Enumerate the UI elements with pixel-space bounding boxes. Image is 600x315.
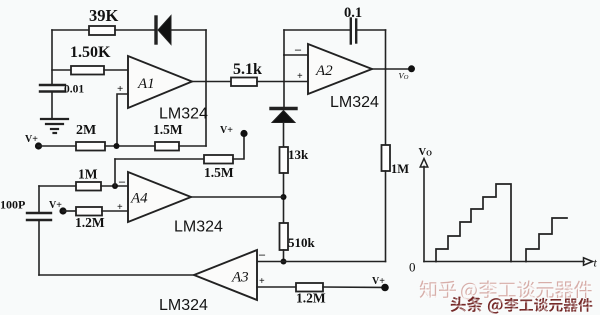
- wire A2 output: [372, 68, 411, 70]
- svg-text:1.2M: 1.2M: [296, 291, 326, 306]
- wire 1.5M to V+ corner: [233, 136, 244, 159]
- svg-text:LM324: LM324: [174, 219, 223, 236]
- wire A2 feedback top right: [356, 29, 385, 31]
- svg-text:–: –: [258, 247, 266, 261]
- wire A2 minus node down to diode: [283, 55, 285, 107]
- svg-text:–: –: [294, 42, 302, 56]
- wire left vertical top loop: [51, 30, 53, 85]
- watermark toutiao dark: [451, 296, 594, 315]
- wire 1M top vertical: [385, 69, 387, 145]
- wire 1M bottom vertical: [385, 171, 387, 262]
- svg-text:+: +: [117, 202, 123, 213]
- wire 5.1k to A2 plus input: [257, 81, 308, 83]
- svg-text:A1: A1: [137, 76, 155, 92]
- wire top feedback left: [52, 29, 89, 31]
- svg-text:+: +: [259, 276, 265, 287]
- wire A1 output: [192, 81, 231, 83]
- resistor 1M feedback: [382, 145, 391, 171]
- graph y axis arrowhead: [420, 159, 428, 167]
- wire A2 feedback left vertical: [283, 30, 285, 55]
- wire A4 minus left: [39, 185, 76, 187]
- wire to 1.50K: [52, 69, 71, 71]
- svg-text:V+: V+: [25, 134, 38, 145]
- node V+ A4 plus: [59, 207, 66, 214]
- wire A2 feedback right vertical: [385, 30, 387, 69]
- op-amp A2: [308, 44, 372, 94]
- wire 13k to junction: [283, 173, 285, 223]
- resistor 39K: [89, 26, 115, 35]
- wire 100P bottom vertical: [38, 220, 40, 275]
- staircase waveform 2: [526, 218, 567, 262]
- wire A2 feedback top left: [284, 29, 351, 31]
- svg-text:1.50K: 1.50K: [70, 44, 111, 61]
- svg-text:A3: A3: [231, 270, 249, 286]
- resistor 1.50K: [71, 66, 104, 75]
- graph y axis: [423, 167, 425, 262]
- capacitor C 0.01: [40, 85, 65, 118]
- resistor 1.2M A4: [76, 207, 102, 216]
- staircase waveform 1: [436, 184, 511, 262]
- diode D1: [156, 16, 171, 45]
- svg-text:V+: V+: [372, 276, 385, 287]
- svg-text:13k: 13k: [288, 147, 309, 162]
- resistor 510k: [280, 223, 289, 250]
- svg-text:V+: V+: [220, 125, 233, 136]
- wire A4 minus node up: [114, 159, 116, 186]
- wire V+ to 2M: [38, 145, 76, 147]
- svg-text:0: 0: [409, 260, 416, 275]
- junction A4 output node: [281, 194, 287, 200]
- svg-text:A2: A2: [315, 63, 333, 79]
- resistor 13k: [280, 147, 289, 173]
- wire A2 inverting input: [284, 54, 308, 56]
- svg-text:0.01: 0.01: [64, 84, 84, 96]
- svg-text:V+: V+: [49, 200, 62, 211]
- wire 1.5M to feedback vertical: [179, 145, 206, 147]
- resistor 1.2M A3: [296, 283, 323, 292]
- wire 510k to bottom junction: [283, 250, 285, 262]
- resistor 1.5M A4: [204, 155, 233, 164]
- op-amp A4: [128, 172, 191, 222]
- svg-text:LM324: LM324: [159, 106, 208, 123]
- ground: [41, 119, 68, 133]
- op-amp A1: [128, 56, 192, 108]
- wire A3 minus input: [257, 261, 386, 263]
- wire 1.50K to A1 inverting input: [104, 69, 128, 71]
- wire V+ to 1.2M: [63, 210, 76, 212]
- svg-text:LM324: LM324: [159, 297, 208, 314]
- svg-text:VO: VO: [399, 71, 409, 82]
- svg-text:39K: 39K: [89, 6, 119, 25]
- resistor 1.5M hysteresis: [155, 142, 179, 151]
- junction A1 plus node: [114, 143, 120, 149]
- svg-text:2M: 2M: [76, 123, 96, 138]
- svg-text:1.5M: 1.5M: [153, 122, 183, 137]
- svg-text:510k: 510k: [288, 235, 316, 250]
- wire 39K to diode: [115, 29, 154, 31]
- node V+ mid: [240, 130, 247, 137]
- junction A4 minus node: [112, 183, 118, 189]
- graph x axis arrowhead: [584, 258, 593, 265]
- node Vo output: [408, 65, 415, 72]
- graph x axis: [424, 261, 584, 263]
- wire A1 plus input stub: [117, 94, 128, 146]
- wire to 1.5M A4: [115, 158, 204, 160]
- svg-text:VO: VO: [419, 147, 433, 158]
- node V+ A3: [381, 284, 389, 292]
- svg-text:5.1k: 5.1k: [233, 61, 262, 78]
- svg-text:1M: 1M: [391, 162, 409, 176]
- svg-text:t: t: [594, 256, 598, 270]
- wire A3 plus input: [257, 286, 296, 288]
- wire 1.2M to V+ A3: [323, 286, 385, 289]
- svg-text:1M: 1M: [78, 167, 98, 182]
- wire A3 output: [39, 274, 194, 276]
- resistor 5.1k: [231, 78, 257, 87]
- wire 2M to 1.5M: [105, 145, 155, 147]
- wire diode to corner: [171, 29, 206, 31]
- svg-text:+: +: [297, 71, 303, 82]
- svg-text:1.2M: 1.2M: [75, 215, 105, 230]
- wire right vertical of A1 feedback: [205, 30, 207, 146]
- svg-text:LM324: LM324: [330, 94, 379, 111]
- wire A4 output: [191, 196, 284, 198]
- diode D2: [271, 109, 296, 123]
- capacitor 0.1: [351, 19, 356, 44]
- wire diode to 13k: [283, 123, 285, 148]
- wire 1.2M to A4 plus: [102, 210, 128, 212]
- resistor 2M: [76, 142, 105, 151]
- watermark zhihu faint: [420, 281, 593, 302]
- node V+ left: [35, 142, 42, 149]
- svg-text:A4: A4: [130, 191, 148, 207]
- wire 1M to A4 minus: [101, 185, 128, 187]
- resistor 1M input: [76, 182, 101, 191]
- wire 100P top vertical: [38, 186, 40, 213]
- svg-text:1.5M: 1.5M: [204, 165, 234, 180]
- svg-text:100P: 100P: [0, 198, 25, 212]
- capacitor 100P: [27, 213, 51, 220]
- svg-text:–: –: [118, 174, 126, 188]
- junction A3 minus node: [281, 259, 287, 265]
- svg-text:0.1: 0.1: [344, 5, 362, 21]
- op-amp A3: [194, 250, 257, 300]
